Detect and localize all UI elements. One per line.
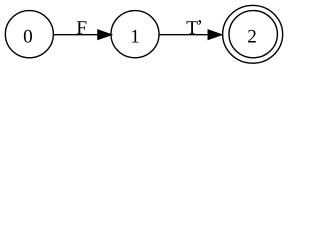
svg-text:0: 0: [23, 26, 33, 47]
svg-text:F: F: [76, 18, 87, 39]
svg-text:2: 2: [247, 26, 257, 47]
state 2 label "2": [247, 26, 257, 47]
state 0: [5, 11, 53, 58]
state 2 (accepting) inner circle: [229, 11, 277, 58]
transition 1->2 wire: [160, 34, 209, 36]
arrowhead 1->2: [208, 30, 221, 39]
arrowhead 0->1: [98, 30, 111, 39]
edge label T': [186, 17, 203, 39]
state 1 label "1": [130, 26, 140, 47]
transition 0->1 wire: [54, 34, 98, 36]
state 1: [111, 11, 159, 58]
svg-text:1: 1: [130, 26, 140, 47]
state 0 label "0": [23, 26, 33, 47]
state 2 (accepting) outer circle: [223, 5, 283, 63]
svg-text:’: ’: [197, 17, 204, 38]
edge label F: [76, 18, 87, 39]
